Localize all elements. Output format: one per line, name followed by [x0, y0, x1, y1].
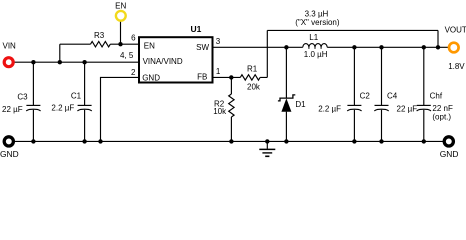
node: GND pin wire at rail: [98, 139, 102, 143]
wire: EN/R3 horizontal line: [60, 43, 138, 45]
svg-text:C2: C2: [360, 92, 371, 101]
svg-text:4, 5: 4, 5: [120, 51, 134, 60]
wire: 3.3uH alternate top path: [267, 30, 438, 47]
svg-text:C3: C3: [17, 93, 28, 102]
resistor R3: [91, 42, 111, 47]
svg-text:EN: EN: [115, 1, 126, 10]
wire: bottom ground rail: [13, 140, 444, 142]
svg-text:22 nF: 22 nF: [432, 104, 453, 113]
node: C4 top: [379, 45, 383, 49]
wire: EN terminal drop: [120, 20, 122, 45]
svg-text:GND: GND: [440, 149, 459, 159]
svg-text:VINA/VIND: VINA/VIND: [143, 57, 183, 66]
wire: R3 branch vertical: [59, 44, 61, 62]
node: EN wire junction: [118, 42, 122, 46]
svg-text:L1: L1: [309, 33, 318, 42]
node: R2 bottom: [229, 139, 233, 143]
diode D1 (schottky): [278, 47, 306, 141]
ground symbol: [259, 141, 275, 156]
IC U1 (regulator, box): [139, 37, 213, 82]
node: C3 bottom: [31, 139, 35, 143]
svg-text:6: 6: [131, 34, 136, 43]
svg-text:D1: D1: [295, 100, 306, 109]
svg-text:2.2 µF: 2.2 µF: [51, 104, 74, 113]
wire: R1/3.3uH vertical (crosses SW, no dot): [266, 30, 268, 77]
svg-text:C1: C1: [71, 91, 82, 100]
terminal EN: [116, 11, 126, 21]
terminal VOUT: [449, 43, 459, 53]
svg-text:Chf: Chf: [430, 92, 443, 101]
capacitor C4: [374, 47, 417, 141]
svg-text:3.3 µH: 3.3 µH: [305, 9, 329, 18]
svg-text:22 µF: 22 µF: [2, 105, 23, 114]
wire: VIN rail to VINA/VIND pin: [13, 61, 138, 63]
svg-text:VOUT: VOUT: [445, 25, 466, 34]
svg-text:U1: U1: [191, 24, 202, 34]
svg-text:VIN: VIN: [3, 41, 17, 50]
svg-text:R1: R1: [247, 64, 258, 73]
svg-text:GND: GND: [142, 73, 160, 82]
node: ground tap on rail: [265, 139, 269, 143]
node: D1 top: [284, 45, 288, 49]
node: Chf bottom: [422, 139, 426, 143]
svg-text:10k: 10k: [213, 107, 227, 116]
svg-text:20k: 20k: [247, 83, 261, 92]
svg-text:(opt.): (opt.): [432, 113, 451, 122]
node: D1 bottom: [284, 139, 288, 143]
node: C2 bottom: [352, 139, 356, 143]
svg-text:3: 3: [216, 37, 221, 46]
wire: IC GND pin 2 to ground rail: [101, 77, 139, 141]
svg-text:1: 1: [216, 67, 221, 76]
svg-text:SW: SW: [196, 43, 209, 52]
svg-text:1.0 µH: 1.0 µH: [304, 50, 328, 59]
node: FB junction: [229, 75, 233, 79]
capacitor Chf: [417, 47, 453, 141]
svg-text:R3: R3: [94, 31, 105, 40]
terminal GND left: [4, 137, 13, 146]
svg-text:C4: C4: [387, 92, 398, 101]
node: C1 top: [82, 60, 86, 64]
svg-text:1.8V: 1.8V: [448, 62, 465, 71]
wire: FB pin line: [214, 76, 268, 78]
svg-text:FB: FB: [197, 72, 207, 81]
node: Chf top: [422, 45, 426, 49]
node: R3 tap on VIN rail: [58, 60, 62, 64]
node: C1 bottom: [82, 139, 86, 143]
svg-text:("X" version): ("X" version): [295, 18, 340, 27]
resistor R2: [213, 77, 234, 141]
node: C4 bottom: [379, 139, 383, 143]
resistor R1: [240, 75, 260, 80]
svg-text:2: 2: [131, 68, 136, 77]
node: C3 top: [31, 60, 35, 64]
node: 3.3uH right end on output line: [436, 45, 440, 49]
terminal VIN: [4, 58, 13, 67]
inductor L1: [303, 33, 328, 59]
terminal GND right: [444, 137, 453, 146]
svg-text:22 µF: 22 µF: [397, 104, 418, 113]
capacitor C3: [2, 62, 41, 141]
svg-text:EN: EN: [144, 42, 155, 51]
svg-text:GND: GND: [0, 149, 19, 159]
capacitor C1: [51, 62, 91, 141]
svg-text:2.2 µF: 2.2 µF: [318, 104, 341, 113]
capacitor C2: [318, 47, 370, 141]
node: C2 top: [352, 45, 356, 49]
wire: SW output line: [214, 46, 449, 48]
